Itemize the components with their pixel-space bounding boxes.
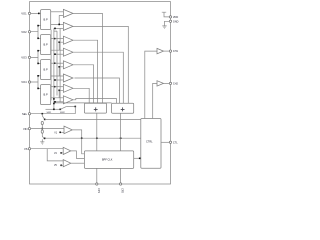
bus line A bbox=[50, 30, 52, 101]
comparator U2 bbox=[63, 22, 73, 30]
svg-text:B.P: B.P bbox=[44, 92, 48, 96]
ground symbol top bbox=[162, 21, 169, 28]
wire A2 out bbox=[71, 151, 85, 159]
wire U4 out staircase bbox=[73, 52, 123, 103]
wire U8 out staircase bbox=[73, 99, 116, 104]
svg-text:VO4: VO4 bbox=[21, 80, 27, 84]
svg-text:VIN: VIN bbox=[23, 127, 28, 131]
svg-text:B.P: B.P bbox=[44, 67, 48, 71]
buffer block BP1 bbox=[41, 10, 51, 30]
svg-text:B.P: B.P bbox=[44, 42, 48, 46]
pin GND bbox=[169, 20, 171, 22]
wire VO4 tee bbox=[31, 76, 41, 89]
switch SW2 blade bbox=[60, 107, 66, 110]
wire VO1 to BP1 bbox=[31, 12, 41, 14]
svg-text:VO3: VO3 bbox=[21, 56, 27, 60]
svg-text:SEL: SEL bbox=[22, 112, 28, 116]
wire B1 to pin bbox=[164, 50, 171, 52]
op-amp A1 bbox=[64, 126, 72, 134]
svg-text:CP2: CP2 bbox=[121, 188, 124, 193]
svg-text:VO1: VO1 bbox=[21, 12, 27, 16]
buffer B1 bbox=[157, 48, 164, 53]
switch chain on SEL bbox=[42, 113, 44, 115]
logic block bbox=[84, 151, 133, 169]
wire ctrl up ch2 bbox=[153, 83, 157, 118]
svg-text:VS: VS bbox=[24, 147, 28, 151]
buffer block BP3 bbox=[41, 60, 51, 80]
wire ref bus bbox=[45, 137, 141, 139]
mux A output down bbox=[96, 113, 98, 151]
node dots mux B inputs bbox=[115, 103, 117, 105]
wire U3 out staircase bbox=[73, 40, 98, 103]
wire BP2 out1 bbox=[51, 38, 64, 40]
control block bbox=[141, 119, 161, 169]
svg-text:CH2: CH2 bbox=[173, 83, 179, 86]
switch line SW area bbox=[46, 108, 61, 110]
stub U2 inv input bbox=[54, 27, 64, 29]
mux block B bbox=[112, 103, 134, 113]
wire A1 out bbox=[72, 130, 84, 154]
pin OA1 bbox=[169, 50, 171, 52]
comparator U8 bbox=[63, 96, 73, 104]
mux block A bbox=[84, 103, 106, 113]
svg-text:B.P: B.P bbox=[44, 17, 48, 21]
pin CTL bbox=[169, 141, 171, 143]
svg-text:VDD: VDD bbox=[173, 16, 178, 19]
current source I2 bbox=[41, 129, 43, 130]
pin VDD bbox=[169, 16, 171, 18]
op-amp A2 bbox=[63, 147, 71, 154]
svg-text:GND: GND bbox=[173, 20, 179, 23]
comparator U6 bbox=[63, 74, 73, 82]
pin CP1 bbox=[96, 183, 98, 185]
svg-text:BPF CLK: BPF CLK bbox=[102, 158, 113, 161]
wire U7 out staircase bbox=[73, 88, 89, 103]
wire logic to control bbox=[134, 157, 141, 159]
wire BP1 out1 bbox=[51, 11, 64, 13]
wire BP4 out2 riser bbox=[51, 90, 64, 98]
svg-text:CP1: CP1 bbox=[97, 188, 100, 193]
comparator U7 bbox=[63, 84, 73, 92]
pin OA2 bbox=[169, 82, 171, 84]
comparator U1 bbox=[63, 9, 73, 17]
svg-text:CTRL: CTRL bbox=[146, 140, 153, 143]
svg-text:V1: V1 bbox=[54, 132, 58, 134]
logic outputs to bottom pins bbox=[96, 168, 98, 184]
wire bias to control bbox=[45, 118, 141, 120]
buffer block BP2 bbox=[41, 35, 51, 55]
ground bbox=[40, 142, 44, 144]
wire BP3 out2 riser bbox=[51, 67, 64, 76]
wire SEL bbox=[31, 107, 76, 114]
wire VIN bbox=[31, 128, 64, 130]
svg-text:V4: V4 bbox=[54, 153, 58, 155]
wire ctrl up ch1 bbox=[145, 51, 157, 118]
stub U4 inv input bbox=[54, 53, 64, 55]
wire U1 out staircase bbox=[73, 13, 102, 103]
node dots mux A inputs bbox=[89, 103, 91, 105]
wire ctrl to pin CTL bbox=[161, 141, 171, 143]
op-amp A3 bbox=[63, 160, 71, 167]
buffer block BP4 bbox=[41, 85, 51, 105]
current source I1 bbox=[41, 121, 43, 124]
wire VO3 tee bbox=[31, 51, 41, 64]
wire BP3 out1 bbox=[51, 62, 64, 64]
outer boundary box bbox=[30, 2, 171, 184]
wire U5 out staircase bbox=[73, 65, 94, 103]
comparator U4 bbox=[63, 48, 73, 56]
pin CP2 bbox=[119, 183, 121, 185]
svg-text:CTL: CTL bbox=[173, 141, 178, 144]
wire U2 out staircase bbox=[73, 26, 128, 103]
wire BP4 out1 bbox=[51, 86, 64, 88]
wire VS bbox=[31, 148, 64, 150]
svg-text:V5: V5 bbox=[54, 165, 58, 167]
bus line C bbox=[54, 31, 57, 95]
bus line D bbox=[59, 28, 61, 101]
wire B2 to pin bbox=[164, 82, 171, 84]
stub U6 inv input bbox=[54, 79, 64, 81]
mux B output down bbox=[120, 113, 122, 151]
stub U8 inv input bbox=[54, 101, 64, 103]
supply symbol VDD bbox=[162, 12, 171, 17]
comparator U3 bbox=[63, 36, 73, 44]
bus line B bbox=[53, 28, 55, 109]
wire VO2 tee bbox=[31, 26, 41, 39]
wire BP1 out2 riser bbox=[51, 15, 64, 24]
buffer B2 bbox=[157, 81, 164, 86]
comparator U5 bbox=[63, 61, 73, 69]
wire BP2 out2 riser bbox=[51, 42, 64, 50]
svg-text:VO2: VO2 bbox=[21, 30, 27, 34]
svg-text:CH1: CH1 bbox=[173, 50, 179, 53]
wire cross link to mux B bbox=[54, 102, 112, 104]
bus B dots bbox=[53, 98, 55, 100]
wire U6 out staircase bbox=[74, 78, 119, 103]
wire A3 out bbox=[71, 162, 85, 164]
wire VS branch down bbox=[47, 149, 63, 161]
